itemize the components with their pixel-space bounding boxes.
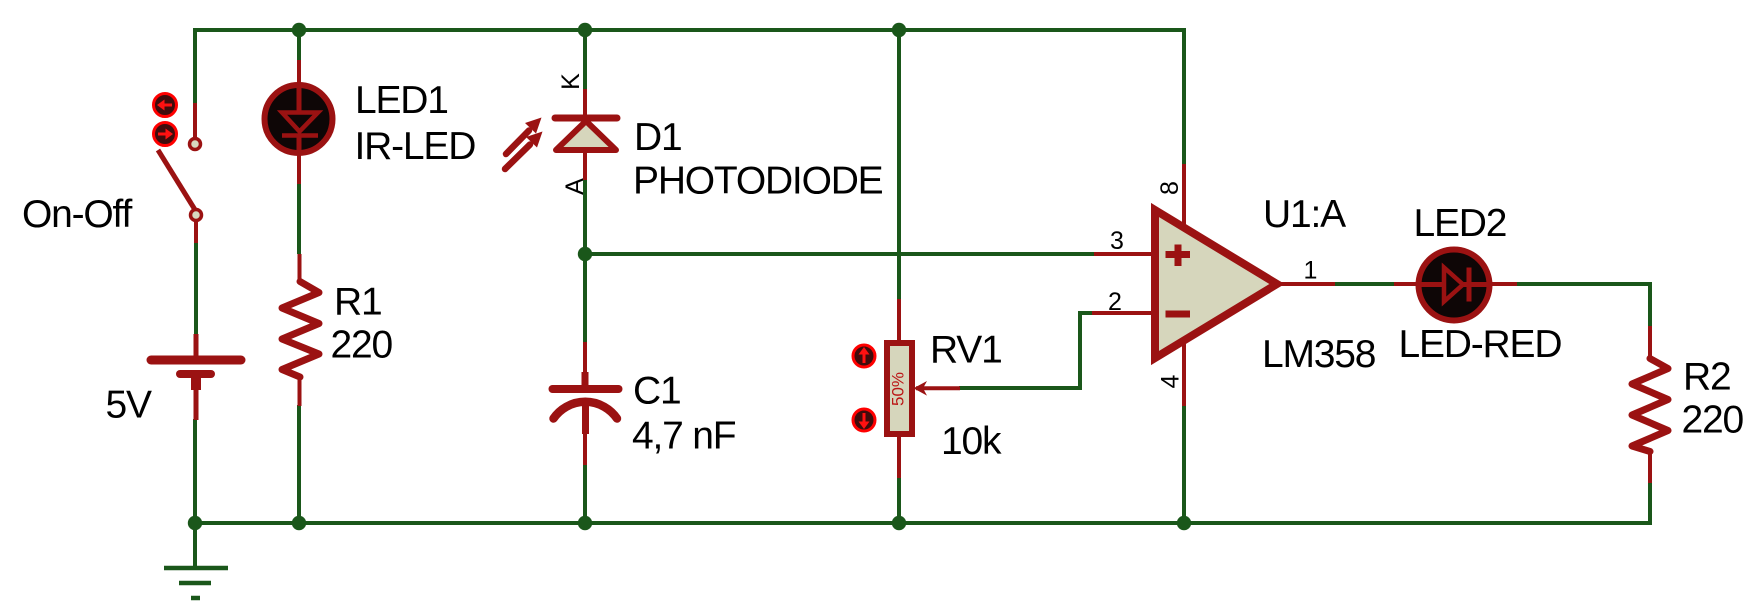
wire supply vertical to op-amp pin 8 — [1182, 28, 1186, 165]
RV1 actuator button up — [853, 345, 875, 367]
wire R1 to bottom rail — [297, 405, 301, 523]
svg-text:IR-LED: IR-LED — [355, 125, 476, 168]
wire bottom rail — [195, 521, 1650, 525]
svg-text:R1: R1 — [334, 281, 381, 324]
capacitor C1 — [553, 342, 619, 465]
op-amp U1 pin 4 stub — [1182, 339, 1186, 406]
svg-text:U1:A: U1:A — [1263, 193, 1346, 236]
svg-text:A: A — [561, 178, 589, 195]
svg-text:RV1: RV1 — [930, 329, 1002, 372]
wire R2 to bottom rail — [1648, 482, 1652, 525]
svg-text:5V: 5V — [106, 384, 152, 427]
svg-text:D1: D1 — [634, 116, 681, 159]
wire op-amp pin 4 to bottom rail — [1182, 405, 1186, 523]
wire node A to op-amp pin 3 — [585, 252, 1095, 256]
svg-text:8: 8 — [1156, 181, 1184, 195]
wire op-amp output to LED2 — [1334, 282, 1395, 286]
op-amp U1:A LM358 body — [1155, 210, 1277, 358]
junction node bottom rail RV1 — [892, 516, 906, 530]
svg-text:PHOTODIODE: PHOTODIODE — [633, 160, 883, 203]
junction node A (D1/C1/pin3) — [578, 247, 592, 261]
svg-text:LM358: LM358 — [1262, 333, 1375, 376]
photodiode D1 light arrow upper — [506, 118, 542, 155]
op-amp U1 pin 2 stub — [1092, 311, 1156, 315]
switch SW1 On-Off — [158, 103, 202, 243]
wire LED1 branch from top rail — [297, 28, 301, 61]
svg-text:10k: 10k — [941, 420, 1002, 463]
svg-text:50%: 50% — [888, 372, 907, 406]
wire RV1 to bottom rail — [897, 477, 901, 523]
wire battery to bottom rail — [193, 419, 197, 523]
svg-text:220: 220 — [1682, 399, 1744, 442]
svg-text:R2: R2 — [1683, 356, 1730, 399]
switch actuator button left — [154, 94, 177, 117]
wire LED2 to R2 corner — [1516, 284, 1650, 327]
photodiode D1 — [555, 89, 617, 180]
svg-text:4: 4 — [1156, 374, 1184, 388]
photodiode D1 light arrow lower — [505, 132, 543, 170]
svg-text:4,7 nF: 4,7 nF — [632, 415, 736, 458]
potentiometer RV1 — [887, 299, 960, 478]
resistor R2 — [1632, 326, 1668, 483]
junction node bottom rail op-amp pin 4 — [1177, 516, 1191, 530]
svg-text:LED2: LED2 — [1414, 202, 1507, 245]
junction node bottom rail R1 — [292, 516, 306, 530]
wire RV1 branch from top rail — [897, 28, 901, 300]
svg-text:2: 2 — [1108, 288, 1122, 316]
junction node bottom rail C1 — [578, 516, 592, 530]
wire D1 branch from top rail — [583, 28, 587, 90]
wire RV1 wiper to op-amp pin 2 — [959, 313, 1093, 388]
wire LED1 to R1 — [297, 183, 301, 254]
svg-text:220: 220 — [331, 324, 393, 367]
LED1 — [265, 60, 333, 184]
RV1 actuator button down — [853, 409, 875, 431]
wire switch branch from top rail — [193, 28, 197, 103]
junction node top rail RV1 — [892, 23, 906, 37]
wire C1 to bottom rail — [583, 464, 587, 523]
junction node bottom rail ground — [188, 516, 202, 530]
junction node top rail D1 — [578, 23, 592, 37]
switch actuator button right — [154, 123, 177, 146]
resistor R1 — [282, 254, 319, 406]
svg-text:K: K — [557, 73, 585, 90]
svg-text:1: 1 — [1304, 257, 1318, 285]
wire top rail — [195, 28, 1184, 32]
svg-text:LED1: LED1 — [355, 79, 448, 122]
ground — [164, 523, 228, 598]
svg-text:3: 3 — [1110, 227, 1124, 255]
battery BT1 5V — [151, 334, 241, 420]
op-amp U1 pin 8 stub — [1182, 164, 1186, 230]
wire switch to battery — [194, 242, 198, 336]
wire D1 to node A — [583, 179, 587, 343]
svg-text:On-Off: On-Off — [22, 193, 132, 236]
svg-text:C1: C1 — [633, 370, 680, 413]
op-amp U1 pin 1 output stub — [1270, 282, 1335, 286]
op-amp U1 pin 3 stub — [1094, 252, 1156, 256]
LED2 — [1394, 250, 1517, 321]
svg-text:LED-RED: LED-RED — [1399, 323, 1562, 366]
junction node top rail LED1 — [292, 23, 306, 37]
